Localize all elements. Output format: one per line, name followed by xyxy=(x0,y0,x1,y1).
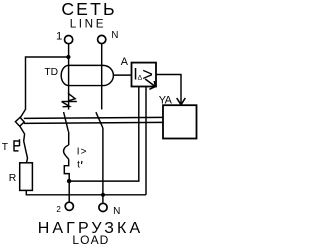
solenoid YA (tripping coil box) xyxy=(163,105,197,138)
svg-text:TD: TD xyxy=(44,67,58,78)
junction dot on pole 1 xyxy=(67,179,71,183)
actuation arrow out of relay corner xyxy=(145,79,155,89)
terminal N (downstream) xyxy=(99,203,107,211)
overcurrent release I> (magnetic bump) xyxy=(64,145,69,159)
svg-text:A: A xyxy=(121,56,129,68)
wire: test branch from node left and down xyxy=(26,57,69,110)
thermal release t' (meander) xyxy=(64,159,69,201)
svg-text:1: 1 xyxy=(56,30,62,42)
junction dot on pole N xyxy=(101,193,105,197)
differential relay U1 (IΔ> block) xyxy=(132,63,157,87)
resistor R (test resistor) xyxy=(20,163,33,191)
svg-text:t: t xyxy=(77,160,80,171)
linkage bar (double line) xyxy=(24,117,163,118)
svg-text:LOAD: LOAD xyxy=(72,233,109,245)
svg-text:R: R xyxy=(9,173,17,184)
contact: pole 1 (moving contact) xyxy=(64,112,69,132)
manual actuator square (handle) xyxy=(15,117,24,126)
terminal N (upstream) xyxy=(98,35,106,43)
wire: resistor bottom lead xyxy=(26,190,146,194)
node: net label СЕТЬ / LINE xyxy=(61,0,116,30)
svg-text:I>: I> xyxy=(77,147,88,158)
wire: pole 1 below contact xyxy=(68,132,70,145)
wire: link from test branch to actuator xyxy=(20,110,25,118)
wire: relay output B to neutral node xyxy=(145,87,147,195)
wire: relay output to solenoid YA with down arrow xyxy=(156,75,181,105)
node junction dot at (68.2,57) xyxy=(66,55,70,59)
wire 1: phase pole through transformer xyxy=(68,57,70,94)
svg-text:T: T xyxy=(2,142,9,153)
node: net label НАГРУЗКА / LOAD xyxy=(38,220,143,245)
svg-text:YA: YA xyxy=(159,95,173,107)
wire A: transformer to differential relay xyxy=(113,74,131,76)
release actuation symbol (bent arrow) on wire 1 xyxy=(69,94,76,101)
svg-text:LINE: LINE xyxy=(70,17,106,30)
terminal 2 (downstream) xyxy=(65,202,73,210)
wire: relay output A to pole 1 node xyxy=(69,87,139,182)
svg-text:СЕТЬ: СЕТЬ xyxy=(61,0,116,19)
test button T xyxy=(20,126,28,163)
svg-text:2: 2 xyxy=(56,205,61,214)
terminal 1 (upstream) xyxy=(65,36,73,44)
svg-text:N: N xyxy=(113,206,120,217)
wire N: through transformer xyxy=(101,44,103,110)
contact: pole N (moving contact) xyxy=(96,112,103,128)
wire: terminal 1 down to node xyxy=(68,44,70,57)
svg-text:N: N xyxy=(111,30,118,41)
wire: pole N below contact xyxy=(102,128,104,203)
transformer TD (toroid core) xyxy=(61,65,113,85)
